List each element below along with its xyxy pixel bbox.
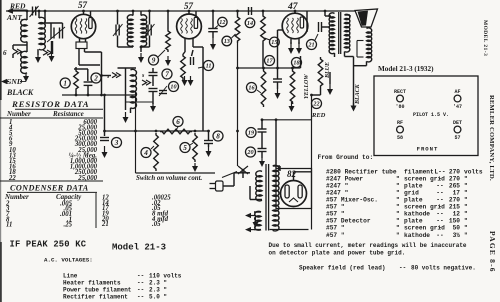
coil L3 secondary (141, 11, 147, 52)
svg-text:2.3 ": 2.3 " (149, 280, 167, 287)
svg-text:": " (396, 189, 400, 196)
trimmer 6 (3, 49, 22, 57)
tube V2 57 (177, 14, 202, 39)
node bus junctions (26, 10, 327, 13)
resistor 18 (290, 69, 295, 104)
wire 47 cath (310, 88, 320, 96)
svg-text:": " (464, 225, 468, 232)
svg-text:RF: RF (397, 120, 403, 126)
ground arrow C17 (275, 82, 281, 99)
resistor 9 (165, 11, 171, 66)
wire filter rail (236, 130, 239, 166)
circled 2 (91, 73, 101, 83)
label 47 (V3) (287, 2, 299, 12)
circled 6 (173, 117, 183, 131)
ground arrow R5 (192, 163, 198, 172)
svg-text:RED: RED (311, 112, 326, 119)
svg-text:7: 7 (165, 70, 169, 78)
arrow gnd lead (1, 79, 9, 84)
ground arrow CT (253, 216, 259, 229)
svg-text:2: 2 (93, 74, 98, 82)
label from ground (318, 154, 374, 161)
wire L1 link (26, 42, 28, 52)
capacitor v2 (191, 50, 194, 65)
table condenser data (4, 184, 171, 229)
resistor 6 volume (160, 129, 192, 134)
svg-text:150: 150 (449, 218, 460, 225)
resistor 13 (235, 11, 240, 43)
svg-text:12: 12 (219, 19, 225, 26)
coil L3 primary (118, 11, 134, 47)
svg-text:kathode: kathode (404, 211, 430, 218)
svg-text:DET: DET (453, 120, 462, 126)
svg-text:A.C. VOLTAGES:: A.C. VOLTAGES: (44, 257, 93, 264)
label YELLOW wire (304, 74, 310, 99)
label switch (136, 172, 237, 183)
svg-text:": " (396, 197, 400, 204)
svg-text:57: 57 (78, 0, 88, 10)
ground arrow L3 (138, 53, 144, 63)
wire out top (325, 11, 331, 16)
resistor 5 (193, 133, 198, 162)
ground arrows V2 (182, 76, 194, 86)
wire V3 grid (294, 11, 296, 13)
svg-text:": " (396, 232, 400, 239)
circled 3 (112, 138, 122, 148)
svg-text:#57 ": #57 " (326, 211, 345, 218)
svg-text:FRONT: FRONT (417, 146, 439, 153)
svg-text:#280 Rectifier tube: #280 Rectifier tube (326, 168, 397, 175)
margin label MODEL 21-3 (482, 20, 488, 56)
svg-text:--: -- (436, 189, 443, 196)
svg-text:Rectifier filament: Rectifier filament (63, 294, 128, 301)
svg-text:L--: L-- (434, 168, 445, 175)
svg-text:BLUE: BLUE (325, 62, 331, 79)
svg-text:#57 ": #57 " (326, 225, 345, 232)
svg-text:18: 18 (293, 60, 299, 67)
svg-text:on detector plate and power tu: on detector plate and power tube grid. (269, 249, 406, 256)
wire gang top (45, 11, 63, 54)
capacitor 7 (149, 68, 158, 86)
wire cathode frame (74, 67, 88, 81)
svg-text:215: 215 (449, 204, 460, 211)
svg-text:'47: '47 (453, 104, 462, 110)
wire ant coil feeds (27, 11, 39, 20)
svg-text:--: -- (436, 218, 443, 225)
svg-text:": " (396, 211, 400, 218)
wire B+ rail (280, 95, 312, 230)
svg-text:#57 ": #57 " (326, 204, 345, 211)
wire 82 plate top (294, 172, 312, 181)
label s cap7 (141, 73, 145, 79)
svg-text:--: -- (436, 232, 443, 239)
wire V1 grid cap (84, 11, 91, 18)
margin label PAGE 8-6 (488, 231, 497, 273)
svg-text:CONDENSER DATA: CONDENSER DATA (10, 184, 89, 193)
capacitor tuning gang 1 (51, 28, 54, 39)
resistor 22 (318, 32, 323, 88)
circled 5 (180, 143, 193, 153)
trimmer S osc (106, 73, 121, 81)
label RED (C battery) (311, 112, 326, 119)
svg-text:10: 10 (170, 84, 176, 91)
ground arrow C8 (206, 144, 212, 158)
wire vol frame (136, 92, 216, 173)
wire V2 grid (189, 11, 196, 17)
table resistor data (0, 99, 103, 182)
svg-text:80 volts negative.: 80 volts negative. (411, 265, 476, 272)
svg-text:21: 21 (101, 221, 109, 228)
svg-text:volts: volts (464, 168, 483, 175)
ground arrow R22 (327, 72, 333, 95)
coil L2 secondary (39, 17, 45, 49)
arrow below C20 (259, 152, 265, 168)
svg-text:": " (464, 182, 468, 189)
svg-text:--: -- (137, 273, 144, 280)
svg-text:--: -- (436, 211, 443, 218)
svg-text:12: 12 (453, 211, 461, 218)
svg-text:5: 5 (183, 144, 187, 152)
page edge scan line (0, 0, 2, 302)
svg-text:PAGE 8-6: PAGE 8-6 (488, 231, 497, 273)
svg-text:82: 82 (287, 169, 297, 179)
table AC voltages (63, 273, 182, 301)
wire field tap (357, 41, 364, 58)
capacitor 10a (149, 89, 158, 105)
svg-text:RED: RED (9, 2, 26, 11)
circled 17 (265, 56, 275, 66)
ground arrow below L2 (35, 49, 41, 63)
svg-text:57: 57 (184, 1, 194, 11)
circled 19 (246, 128, 256, 138)
resistor 4 (154, 133, 159, 171)
svg-text:plate: plate (404, 182, 423, 189)
svg-text:--: -- (137, 287, 144, 294)
trimmer S2 (43, 50, 52, 55)
label 82 (287, 169, 297, 179)
circled 7 (162, 69, 172, 79)
svg-text:Resistance: Resistance (52, 110, 84, 118)
svg-text:6: 6 (3, 49, 7, 57)
svg-text:13: 13 (224, 38, 230, 45)
svg-text:5.0 ": 5.0 " (149, 294, 167, 301)
capacitor 3 (100, 138, 109, 141)
label 57 (V2) (184, 1, 194, 11)
wire mid bus (103, 130, 208, 133)
capacitor 10b (159, 86, 167, 96)
svg-text:kathode: kathode (404, 232, 430, 239)
svg-text:REMLER COMPANY, LTD.: REMLER COMPANY, LTD. (488, 95, 495, 181)
svg-text:2.3 ": 2.3 " (149, 287, 167, 294)
circled 10 (169, 82, 179, 92)
label GND (6, 77, 26, 86)
svg-text:MODEL 21-3: MODEL 21-3 (482, 20, 488, 56)
transformer T1 primary upper (223, 171, 262, 201)
arrow speaker black (351, 103, 357, 112)
svg-text:#57 ": #57 " (326, 232, 345, 239)
capacitor 12 (208, 11, 218, 32)
svg-text:4: 4 (143, 149, 148, 157)
circled 22 (312, 99, 322, 109)
svg-text:YELLOW: YELLOW (304, 74, 310, 99)
svg-text:-: - (438, 204, 442, 211)
label IF PEAK (10, 240, 87, 250)
svg-text:": " (396, 225, 400, 232)
svg-text:": " (464, 232, 468, 239)
svg-text:1: 1 (63, 79, 67, 87)
label RED (antenna lead) (9, 2, 27, 11)
svg-text:#247 ": #247 " (326, 182, 348, 189)
circled 15 (265, 37, 280, 47)
tube V1 57 (71, 14, 95, 38)
arrow filament tap 1 (245, 213, 261, 218)
svg-text:21: 21 (307, 42, 314, 49)
speaker field coil (354, 27, 372, 66)
wire V3 plate (278, 11, 308, 68)
svg-text:-: - (438, 175, 442, 182)
wire rc top (238, 56, 301, 69)
transformer T1 secondary (273, 165, 280, 231)
transformer T1 core (266, 164, 269, 231)
svg-text:": " (464, 218, 468, 225)
svg-text:AF: AF (454, 89, 460, 95)
svg-text:6: 6 (176, 118, 180, 126)
svg-text:--: -- (436, 197, 443, 204)
svg-text:RECT: RECT (394, 89, 406, 95)
svg-text:PILOT 1.5 V.: PILOT 1.5 V. (413, 112, 449, 118)
wire V2 legs (185, 38, 203, 132)
label BLUE wire (325, 62, 331, 79)
resistor 1 (74, 69, 79, 91)
svg-text:Speaker field (red lead): Speaker field (red lead) (299, 265, 385, 272)
label BLACK (6, 88, 34, 97)
svg-text:": " (396, 204, 400, 211)
transformer T2 primary (329, 13, 334, 57)
svg-text:14: 14 (247, 20, 253, 27)
svg-text:Switch on volume cont.: Switch on volume cont. (136, 175, 203, 182)
svg-text:--: -- (137, 280, 144, 287)
svg-text:11: 11 (6, 222, 12, 229)
svg-text:9: 9 (152, 56, 156, 64)
coil L1 primary lower (21, 51, 27, 73)
label BLACK wire (355, 83, 361, 105)
ground arrow trimmer S2 (49, 41, 55, 62)
svg-text:110 volts: 110 volts (149, 273, 182, 280)
svg-text:Heater filaments: Heater filaments (63, 280, 121, 287)
svg-text:filament: filament (404, 168, 434, 175)
svg-text:-: - (438, 225, 442, 232)
svg-text:": " (464, 197, 468, 204)
wire switch drop (243, 170, 250, 178)
svg-text:#247 ": #247 " (326, 189, 348, 196)
svg-text:17: 17 (453, 189, 461, 196)
arrow filament tap 2 (245, 227, 254, 232)
circled 11 (198, 61, 214, 71)
svg-text:": " (464, 175, 468, 182)
margin label REMLER COMPANY LTD (488, 95, 495, 181)
wire trimmer6 taps (13, 45, 27, 58)
svg-text:'80: '80 (395, 104, 404, 110)
svg-text:--: -- (436, 182, 443, 189)
svg-text:From Ground to:: From Ground to: (318, 154, 374, 161)
svg-text:#57 Detector: #57 Detector (326, 218, 371, 225)
ground arrow C12 (210, 32, 216, 50)
svg-text:BLACK: BLACK (6, 88, 34, 97)
tube socket layout box (374, 65, 478, 156)
svg-text:17: 17 (266, 58, 273, 65)
capacitor 19 (258, 120, 267, 149)
svg-text:#247 Power: #247 Power (326, 175, 363, 182)
chevrons osc coupling (142, 80, 151, 85)
svg-text:15: 15 (271, 39, 277, 46)
capacitor 8 (204, 130, 213, 144)
svg-text:270: 270 (449, 168, 460, 175)
circled 21 (307, 34, 319, 50)
circled 8 (213, 131, 223, 141)
svg-text:265: 265 (449, 182, 460, 189)
circled 18 (292, 58, 302, 68)
transformer T1 primary lower (254, 211, 261, 230)
svg-text:grid: grid (404, 189, 419, 196)
circled 1 (60, 78, 70, 88)
arrow V3 leg2 (296, 39, 302, 54)
svg-text:50: 50 (453, 225, 461, 232)
svg-text:": " (396, 175, 400, 182)
circled 9 (149, 50, 166, 65)
table from ground voltages (326, 168, 483, 238)
trimmer cap right (140, 11, 155, 48)
wire V1 legs (76, 38, 102, 95)
svg-text:19: 19 (248, 130, 254, 137)
svg-text:.25: .25 (64, 222, 73, 229)
svg-text:.05: .05 (152, 221, 161, 228)
tube V3 47 (282, 13, 308, 39)
svg-text:16: 16 (248, 85, 255, 92)
svg-text:#57 Mixer-Osc.: #57 Mixer-Osc. (326, 197, 378, 204)
circled 4 (141, 146, 154, 158)
ground arrow osc (123, 112, 129, 123)
coil L1 primary upper (21, 19, 27, 42)
svg-text:Power tube filament: Power tube filament (63, 287, 132, 294)
circled 16 (247, 83, 262, 94)
ground arrow C3 (102, 146, 108, 158)
capacitor 20 (258, 149, 267, 152)
svg-text:3½: 3½ (453, 232, 461, 239)
label 57 (V1) (78, 0, 88, 10)
note speaker field (299, 265, 476, 272)
wire osc bottom (126, 102, 157, 113)
AC plug (210, 173, 251, 191)
wire HV bottom (270, 206, 309, 230)
resistor 11 bias (181, 52, 186, 80)
resistor 16 (261, 69, 266, 107)
svg-text:58: 58 (397, 135, 403, 141)
label ANT. (6, 13, 23, 22)
box rectifier unit (276, 169, 312, 209)
tube 82 rectifier (281, 181, 307, 207)
capacitor 14 series (244, 7, 252, 15)
wire cathode bus (62, 91, 135, 136)
switch on volume control (238, 166, 248, 174)
svg-text:BLACK: BLACK (355, 83, 361, 105)
wire osc frame (100, 68, 136, 110)
svg-text:plate: plate (404, 197, 423, 204)
svg-text:270: 270 (449, 197, 460, 204)
ground arrow R18 (289, 102, 295, 112)
wire filter bus (261, 118, 312, 168)
wire top bus (6, 8, 356, 14)
wire det vert (236, 43, 263, 131)
svg-text:47: 47 (287, 2, 299, 12)
circled 13 (222, 34, 236, 46)
capacitor tuning gang 2 (47, 27, 65, 42)
svg-text:": " (464, 189, 468, 196)
trimmer cap left (113, 11, 123, 47)
svg-text:plate: plate (404, 218, 423, 225)
svg-text:Line: Line (63, 273, 78, 280)
arrow V3 leg1 (288, 39, 294, 54)
circled 12 (215, 17, 228, 28)
capacitor antenna series (30, 6, 39, 17)
svg-text:22: 22 (312, 101, 319, 108)
circled 20 (246, 147, 256, 157)
svg-text:3: 3 (114, 139, 119, 147)
resistor 15 (261, 11, 266, 43)
svg-text:--: -- (137, 294, 144, 301)
svg-text:--: -- (399, 265, 406, 272)
label Model 21-3 (112, 243, 166, 253)
circled 14 (245, 18, 255, 28)
svg-text:8: 8 (216, 132, 220, 140)
svg-text:Number: Number (6, 110, 31, 118)
capacitor 2 (84, 82, 93, 95)
transformer T2 core (339, 12, 341, 54)
svg-text:57: 57 (454, 135, 460, 141)
svg-text:270: 270 (449, 175, 460, 182)
ground arrow below L1 (23, 73, 29, 82)
capacitor 21 (307, 22, 330, 32)
svg-text:Model 21-3: Model 21-3 (112, 243, 166, 253)
transformer T2 secondary (345, 14, 354, 106)
capacitor 17 (273, 67, 282, 82)
svg-text:": " (396, 218, 400, 225)
svg-text:": " (464, 211, 468, 218)
svg-text:20: 20 (246, 149, 253, 156)
svg-text:RESISTOR DATA: RESISTOR DATA (11, 99, 89, 109)
speaker horn (355, 9, 378, 27)
svg-text:Due to small current, meter re: Due to small current, meter readings wil… (269, 242, 467, 249)
svg-text:": " (396, 182, 400, 189)
svg-text:": " (464, 204, 468, 211)
svg-text:Model 21-3 (1932): Model 21-3 (1932) (378, 65, 434, 73)
svg-text:IF PEAK 250 KC: IF PEAK 250 KC (10, 240, 87, 250)
coil osc (131, 69, 137, 108)
note inaccurate readings (269, 242, 467, 256)
label AC voltages heading (44, 257, 93, 264)
svg-text:11: 11 (206, 63, 212, 70)
